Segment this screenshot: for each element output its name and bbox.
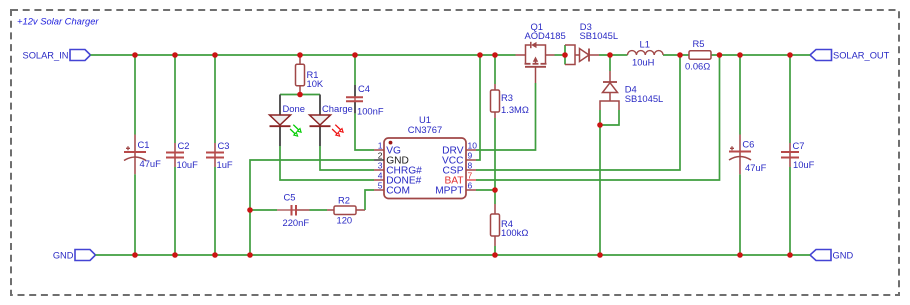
svg-text:1.3MΩ: 1.3MΩ (501, 104, 529, 115)
svg-text:10K: 10K (307, 78, 324, 89)
wire C4 bottom to VG pin 1 (354, 102, 356, 114)
U1 pin 9 VCC (466, 159, 476, 161)
svg-text:SOLAR_IN: SOLAR_IN (23, 50, 69, 60)
svg-text:COM: COM (386, 186, 410, 197)
junction (215,255) (212, 252, 218, 258)
wire R2 to COM pin 5 (356, 209, 365, 211)
svg-text:10uH: 10uH (632, 57, 654, 68)
svg-text:GND: GND (53, 250, 74, 260)
junction (495,190) (492, 187, 498, 193)
svg-text:4: 4 (378, 171, 383, 181)
resistor R4 (491, 214, 500, 236)
junction (719.5,55) (717, 52, 723, 58)
wire C1 bottom lead (134, 174, 136, 255)
svg-text:C3: C3 (218, 140, 230, 151)
svg-text:SB1045L: SB1045L (580, 30, 619, 41)
junction (355,55) (352, 52, 358, 58)
svg-text:R2: R2 (338, 195, 350, 206)
svg-text:+12v Solar Charger: +12v Solar Charger (17, 16, 99, 27)
svg-text:47uF: 47uF (140, 158, 162, 169)
wire C7 bottom lead (789, 167, 791, 255)
svg-text:9: 9 (468, 151, 473, 161)
wire C5 to R2 (296, 209, 310, 211)
svg-text:L1: L1 (640, 39, 650, 50)
wire C3 top lead (214, 55, 216, 143)
capacitor C4 (346, 97, 363, 101)
svg-text:10uF: 10uF (793, 159, 815, 170)
resistor R5 (689, 51, 711, 60)
port SOLAR_IN (70, 50, 91, 61)
U1 pin 6 MPPT (466, 189, 476, 191)
wire R4 top lead (494, 190, 496, 204)
svg-text:C5: C5 (284, 192, 296, 203)
junction (610,55) (607, 52, 613, 58)
svg-text:120: 120 (337, 215, 353, 226)
U1 pin 10 DRV (466, 149, 476, 151)
wire LED top bus (280, 94, 320, 96)
svg-text:SOLAR_OUT: SOLAR_OUT (833, 50, 890, 60)
transistor Q1 AOD4185 P-MOSFET (516, 42, 555, 83)
svg-text:SB1045L: SB1045L (625, 93, 664, 104)
capacitor C3 (206, 153, 224, 158)
wire C4 top lead (354, 55, 356, 85)
junction (565,55) (562, 52, 568, 58)
svg-text:AOD4185: AOD4185 (525, 30, 566, 41)
wire R3 bottom to MPPT node (494, 112, 496, 118)
U1 pin1 marker dot (389, 141, 393, 145)
wire R1 top lead (299, 55, 301, 64)
svg-text:GND: GND (833, 250, 854, 260)
junction (250,255) (247, 252, 253, 258)
svg-text:2: 2 (378, 151, 383, 161)
capacitor C7 (781, 152, 799, 158)
wire bottom GND rail (96, 254, 811, 256)
U1 pin 8 CSP (466, 169, 476, 171)
junction (740,255) (737, 252, 743, 258)
U1 pin 1 VG (374, 149, 384, 151)
U1 pin 2 GND (374, 159, 384, 161)
svg-text:CN3767: CN3767 (408, 124, 442, 135)
junction (250,210) (247, 207, 253, 213)
resistor R2 (334, 206, 356, 215)
svg-text:3: 3 (378, 161, 383, 171)
port GND right (810, 250, 831, 261)
junction (790,55) (787, 52, 793, 58)
wire Done LED anode (279, 95, 281, 116)
svg-text:Charge: Charge (322, 103, 353, 114)
wire top rail Q1 drain to D3 (555, 54, 566, 56)
U1 pin 5 COM (374, 189, 384, 191)
svg-text:5: 5 (378, 181, 383, 191)
svg-text:6: 6 (468, 181, 473, 191)
capacitor C1 (polarized) (124, 146, 146, 160)
wire CSP pin 8 to R5 left (476, 55, 680, 170)
svg-text:100kΩ: 100kΩ (501, 227, 528, 238)
junction (480,55) (477, 52, 483, 58)
U1 pin 7 BAT (466, 179, 476, 181)
wire Done LED cathode to DONE# pin (279, 126, 281, 146)
svg-text:C7: C7 (793, 140, 805, 151)
wire C2 bottom lead (174, 167, 176, 255)
capacitor C2 (166, 153, 184, 158)
junction (495,55) (492, 52, 498, 58)
LED Done (270, 115, 302, 136)
junction (135,55) (132, 52, 138, 58)
wire BAT pin 7 to R5 right (476, 55, 720, 180)
svg-text:R5: R5 (693, 38, 705, 49)
wire D4 anode bus (600, 110, 619, 125)
svg-text:100nF: 100nF (357, 106, 384, 117)
wire D4 cathode to switch node (609, 55, 611, 71)
wire C6 top lead (739, 55, 741, 135)
svg-text:C4: C4 (358, 83, 370, 94)
junction (790,255) (787, 252, 793, 258)
svg-text:R3: R3 (501, 92, 513, 103)
junction (600,255) (597, 252, 603, 258)
port SOLAR_OUT (810, 50, 832, 61)
capacitor C6 (polarized) (729, 146, 751, 160)
svg-text:8: 8 (468, 161, 473, 171)
diode D3 SB1045L (565, 45, 599, 65)
svg-text:10uF: 10uF (177, 159, 199, 170)
port GND left (75, 250, 96, 261)
svg-text:0.06Ω: 0.06Ω (685, 60, 710, 71)
wire C3 bottom lead (214, 167, 216, 255)
wire DRV pin 10 to Q1 gate (476, 83, 536, 150)
wire R1 bottom lead (299, 86, 301, 94)
resistor R3 (491, 90, 500, 112)
wire top rail SOLAR_IN to Q1 (91, 54, 516, 56)
op-amp U1 CN3767 body (384, 138, 466, 199)
junction (680,55) (677, 52, 683, 58)
svg-text:1uF: 1uF (217, 159, 233, 170)
junction (215,55) (212, 52, 218, 58)
wire C7 top lead (789, 55, 791, 143)
svg-text:Done: Done (283, 103, 305, 114)
wire D4 to ground rail (599, 125, 601, 255)
svg-text:7: 7 (468, 171, 473, 181)
svg-text:220nF: 220nF (283, 217, 310, 228)
wire C5 left lead (250, 209, 277, 211)
wire L1 to R5 node (663, 54, 689, 56)
svg-text:C6: C6 (742, 139, 754, 150)
junction (495,255) (492, 252, 498, 258)
LED Charge (310, 115, 344, 136)
diode D4 SB1045L (600, 71, 619, 110)
wire C6 bottom lead (739, 174, 741, 255)
junction (740,55) (737, 52, 743, 58)
svg-text:47uF: 47uF (745, 162, 767, 173)
inductor L1 (628, 51, 664, 55)
svg-text:1: 1 (378, 141, 383, 151)
junction (175,255) (172, 252, 178, 258)
U1 pin 4 DONE# (374, 179, 384, 181)
U1 pin 3 CHRG# (374, 169, 384, 171)
wire C2 top lead (174, 55, 176, 143)
junction (300,94.5) (297, 92, 303, 98)
wire R3 top lead (494, 55, 496, 84)
wire Charge LED anode (319, 95, 321, 116)
svg-text:10: 10 (468, 141, 478, 151)
junction (175,55) (172, 52, 178, 58)
wire C1 top lead (134, 55, 136, 135)
wire D3 cathode to D4/L1 (599, 54, 628, 56)
wire R4 bottom lead (494, 236, 496, 246)
resistor R1 (296, 64, 305, 86)
junction (600,125) (597, 122, 603, 128)
wire R5 to SOLAR_OUT (711, 54, 810, 56)
wire MPPT pin 6 to divider (476, 189, 495, 191)
svg-text:C1: C1 (138, 139, 150, 150)
wire Charge LED cathode to CHRG# pin (319, 126, 321, 146)
wire VCC pin 9 to input rail (476, 55, 480, 160)
junction (135,255) (132, 252, 138, 258)
capacitor C5 (292, 205, 297, 216)
svg-text:C2: C2 (178, 140, 190, 151)
junction (300,55) (297, 52, 303, 58)
wire GND pin 2 to ground rail (250, 160, 374, 255)
svg-text:MPPT: MPPT (435, 186, 463, 197)
